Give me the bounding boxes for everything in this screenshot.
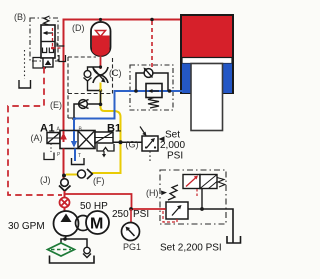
spring diagonal of H relief [168,185,178,200]
cylinder rod [191,64,223,131]
counterbalance valve enclosure [130,65,173,110]
main body [60,131,95,149]
enclosure dashes around C [68,57,113,118]
red pilot loop [163,209,177,222]
node: counterbalance pilot tap [150,18,154,22]
tank symbol under B [19,80,31,88]
wire: valve A to relief G [113,140,142,144]
valve B (top-left pressure valve) [30,16,66,67]
spring below [148,98,159,109]
pilot box with triangle [43,58,53,67]
filter strainer [48,243,75,256]
valve B drain to tank [19,50,46,88]
enclosure [30,18,58,61]
accumulator D [91,22,111,56]
pump [54,208,79,237]
yellow stub to F [66,174,77,176]
T-port tank under valve A [72,149,85,165]
red A-port line with arrow into valve [60,131,67,142]
node: F branch [62,174,66,178]
right solenoid box [95,132,113,143]
svg-text:(J): (J) [40,175,51,185]
cylinder barrel [181,15,233,93]
crossed arrows box2 [79,132,95,148]
tank bottom [50,256,95,264]
tank bottom right [227,236,241,243]
wire: gauge drop [130,209,132,223]
svg-text:T: T [78,153,81,159]
svg-text:M: M [90,216,103,233]
drain check valve [83,247,91,257]
spring top [44,16,50,25]
wire: red dashed pilot from B around left side [8,67,62,195]
drain dashes below G [149,151,151,161]
node: gauge tee [129,207,133,211]
svg-text:(E): (E) [50,100,62,110]
svg-text:PSI: PSI [167,151,183,162]
blocked ports bottom box [43,48,47,53]
svg-text:30 GPM: 30 GPM [8,221,45,232]
relief valve H body [163,202,188,222]
relief assembly H enclosure [160,170,226,224]
pressure gauge PG1 [122,223,140,241]
wire: red dashed pilot to counterbalance check [151,21,153,68]
wire: red P line from valve A down [63,149,65,180]
check valve J [59,179,71,191]
wire: blue line from valve B port to cylinder [74,91,183,131]
arrow in top box [44,32,53,34]
wire: top red supply line [64,20,182,132]
electric motor M [86,211,109,234]
leader arrow into G [140,127,145,135]
shutoff symbol red circle X [60,198,70,208]
wire: yellow from C down [92,83,121,174]
spring bracket below right solenoid [97,144,114,151]
relief valve G [140,127,158,162]
svg-text:(D): (D) [72,23,85,33]
svg-text:Set 2,200 PSI: Set 2,200 PSI [160,243,222,254]
svg-text:250: 250 [112,209,129,220]
directional valve A [47,131,114,158]
node: accumulator tap [100,20,102,24]
svg-text:(H): (H) [146,188,159,198]
wire: accumulator to flow control [100,56,102,69]
svg-text:(C): (C) [109,68,122,78]
svg-text:(F): (F) [93,176,105,186]
stub mark right of enclosure [57,43,65,47]
drain arrow [103,151,105,156]
svg-text:B1: B1 [107,123,121,135]
svg-text:Set: Set [165,130,180,141]
flow control C [93,67,108,83]
wire: junction link on yellow node [100,91,102,105]
svg-text:50 HP: 50 HP [80,201,108,212]
valve body [41,25,55,58]
wire: red from J to shutoff [64,191,66,198]
shaft coupling [76,216,91,231]
solenoid left [47,133,60,144]
red pilot dashes inside [52,28,54,48]
svg-text:PSI: PSI [133,209,149,220]
svg-text:PG1: PG1 [123,242,141,252]
solenoid vent valve in H [183,175,225,197]
wire: pump suction down [61,236,87,248]
Set 2,000 PSI text [159,130,186,162]
blue B-port arrow inside valve [71,131,77,148]
wire: red tee to gauge/H [65,194,167,209]
check valve E [72,100,102,121]
counterbalance valve body [134,68,171,109]
check valve bypass around C [84,65,103,92]
svg-text:(G): (G) [126,140,139,150]
wire: H outlet to tank [188,189,233,243]
svg-text:(B): (B) [14,12,26,22]
solenoid drain tank under valve A left [44,144,54,160]
svg-text:2,000: 2,000 [160,140,185,151]
check valve F [78,169,93,179]
svg-text:(A): (A) [31,133,43,143]
